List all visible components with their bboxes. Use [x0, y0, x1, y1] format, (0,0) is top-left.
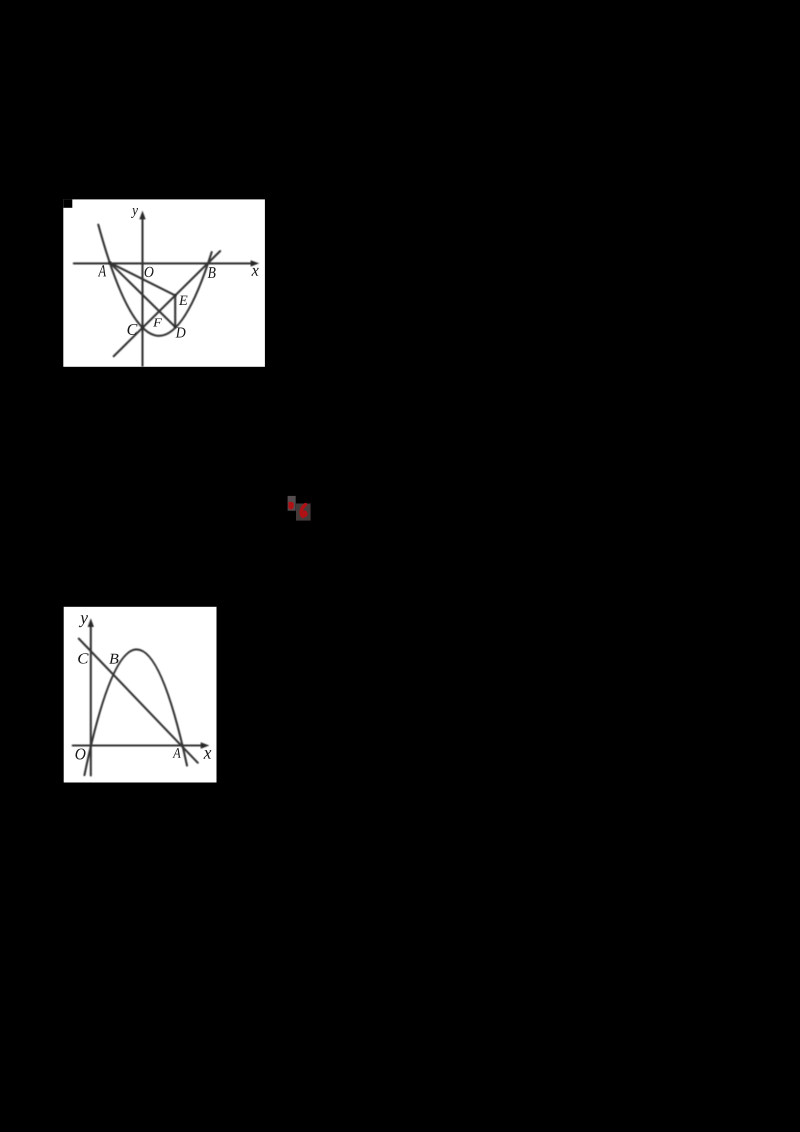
fig2 label A [173, 748, 181, 758]
fig1 label D [176, 328, 186, 338]
fig2 parabola through O and A [84, 649, 187, 775]
fig1 x-axis arrowhead [251, 260, 260, 266]
fig1 line through C and B [114, 251, 220, 356]
red annotation: gray patch 2 [296, 504, 311, 521]
figure 1 top-left black notch [63, 199, 72, 207]
fig1 point C [141, 326, 144, 329]
fig1 point E [174, 294, 177, 297]
fig1 label O [145, 267, 154, 277]
fig1 label F [153, 319, 162, 327]
fig2 label x [204, 750, 212, 759]
figure 2 panel background [64, 607, 217, 783]
fig1 y-axis arrowhead [139, 211, 145, 220]
red annotation: red blob 2 bowl [301, 510, 308, 517]
fig2 label C [78, 653, 88, 663]
fig1 label y [131, 208, 138, 218]
fig1 point A [108, 261, 111, 264]
fig2 label O [76, 749, 86, 760]
red annotation: gray patch 1 [288, 496, 296, 511]
fig2 line through C, B and A [79, 639, 198, 763]
fig1 segment A to D through F [110, 263, 175, 327]
red annotation: red blob 1 [288, 502, 294, 510]
fig2 label B [109, 654, 118, 664]
figure 1 panel background [63, 199, 265, 366]
fig1 label C [128, 324, 138, 335]
fig1 label x [251, 268, 258, 276]
fig2 y-axis [90, 626, 92, 776]
fig2 label y [79, 615, 88, 627]
fig1 label E [179, 296, 188, 305]
fig1 parabola through A,C,D,B [98, 225, 211, 336]
fig1 point D [174, 326, 177, 329]
red annotation: red stroke 2 (6-shaped) [301, 505, 305, 517]
fig2 y-axis arrowhead [88, 618, 94, 627]
fig2 x-axis arrowhead [201, 742, 210, 748]
fig1 segment A to E [110, 263, 175, 296]
fig1 label B [208, 267, 216, 278]
fig2 x-axis [73, 744, 202, 746]
fig1 y-axis [141, 219, 143, 366]
fig1 label A [98, 265, 106, 276]
fig1 segment E to D [174, 295, 176, 327]
fig1 x-axis [74, 262, 252, 264]
